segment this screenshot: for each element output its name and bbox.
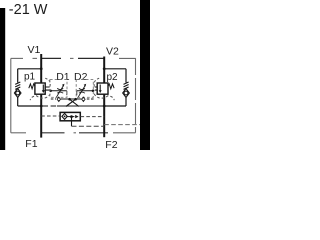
wire X crossing legs — [66, 99, 79, 106]
throttle D2 arrow slash — [78, 85, 86, 98]
node junction V1/top rail — [40, 67, 43, 70]
shuttle valve body — [60, 112, 80, 120]
dashed box around D1 — [50, 80, 67, 98]
spring of check valve right — [124, 82, 129, 89]
node junction F1/rail — [40, 105, 43, 108]
wire V2 main line — [103, 57, 105, 84]
pilot dashed arc under p2 — [94, 94, 114, 100]
wire F1 main line — [40, 94, 42, 138]
node X left — [68, 98, 71, 101]
node junction V2/top rail — [103, 67, 106, 70]
throttle D1 restrictor arcs — [57, 88, 63, 93]
wire F2 main line — [103, 94, 105, 137]
pilot check right (seat + ball) on rail — [81, 96, 85, 102]
arrow inside p2 — [99, 85, 101, 91]
black crop bar right — [140, 0, 150, 150]
wire left check branch lower — [17, 97, 19, 106]
pilot check left (seat + ball) on rail — [57, 96, 61, 102]
pilot dashed F1 to shuttle — [41, 115, 60, 117]
pilot rail y99 — [51, 98, 56, 100]
wire p1 top rail — [18, 68, 42, 70]
dashed box around D2 — [76, 80, 93, 98]
wire right bottom rail — [104, 105, 126, 107]
svg-text:V2: V2 — [106, 46, 119, 58]
pilot dashed arc under p1 — [30, 94, 50, 100]
svg-text:p1: p1 — [24, 72, 36, 83]
svg-text:V1: V1 — [28, 44, 41, 56]
wire left bottom rail — [18, 105, 42, 107]
node pilot right — [92, 90, 95, 93]
wire right check branch upper — [125, 69, 127, 83]
node pilot left — [49, 90, 52, 93]
wire V1 main line — [40, 54, 42, 83]
pilot dashed arc above p2 (to V2 side) — [94, 78, 101, 87]
svg-text:-21 W: -21 W — [9, 2, 48, 18]
pilot dashed shuttle to F2 — [81, 116, 105, 118]
wire right check branch lower — [125, 97, 127, 106]
node X right — [74, 98, 77, 101]
check valve left (seat + ball) — [14, 89, 21, 98]
shuttle drain down — [71, 118, 73, 126]
svg-text:F2: F2 — [105, 139, 117, 150]
enclosure boundary top (dash-dot) — [11, 57, 37, 59]
shuttle arrow — [75, 115, 78, 118]
pilot stubs p2 (left) — [95, 87, 97, 90]
spring of p1 (left) — [29, 84, 35, 89]
counterbalance valve p1 body — [35, 83, 45, 94]
enclosure boundary right — [135, 58, 137, 132]
wire left check branch upper — [17, 69, 19, 83]
enclosure boundary bottom (dash-dot) — [11, 132, 26, 134]
throttle line D2 (y91) — [77, 90, 94, 92]
shuttle drain to F2 (dashed) — [72, 125, 105, 127]
svg-text:p2: p2 — [107, 72, 119, 83]
pilot stubs p1 (right) — [45, 87, 49, 90]
throttle D1 arrow slash — [56, 85, 64, 98]
shuttle inner line + node — [66, 116, 74, 118]
shuttle ball diamond — [62, 113, 67, 119]
wire middle rail dashed (F1 to F2) — [43, 105, 58, 107]
throttle D2 restrictor arcs — [79, 88, 85, 93]
spring of check valve left — [15, 82, 20, 89]
svg-text:F1: F1 — [25, 138, 37, 150]
wire p2 top rail — [104, 68, 126, 70]
spring of p2 (right) — [108, 84, 114, 89]
arrow inside p1 — [42, 85, 44, 91]
external pilot dashed line to right edge — [104, 124, 140, 126]
counterbalance valve p2 body — [97, 83, 108, 94]
check valve right (seat + ball) — [123, 89, 130, 98]
enclosure boundary left — [10, 58, 12, 132]
pilot dashed arc above p1 (to V1 side) — [44, 78, 51, 87]
node junction F2/rail — [103, 105, 106, 108]
throttle line D1 (y91) — [50, 90, 67, 92]
black crop bar left — [0, 8, 5, 150]
svg-text:D1: D1 — [56, 71, 70, 83]
